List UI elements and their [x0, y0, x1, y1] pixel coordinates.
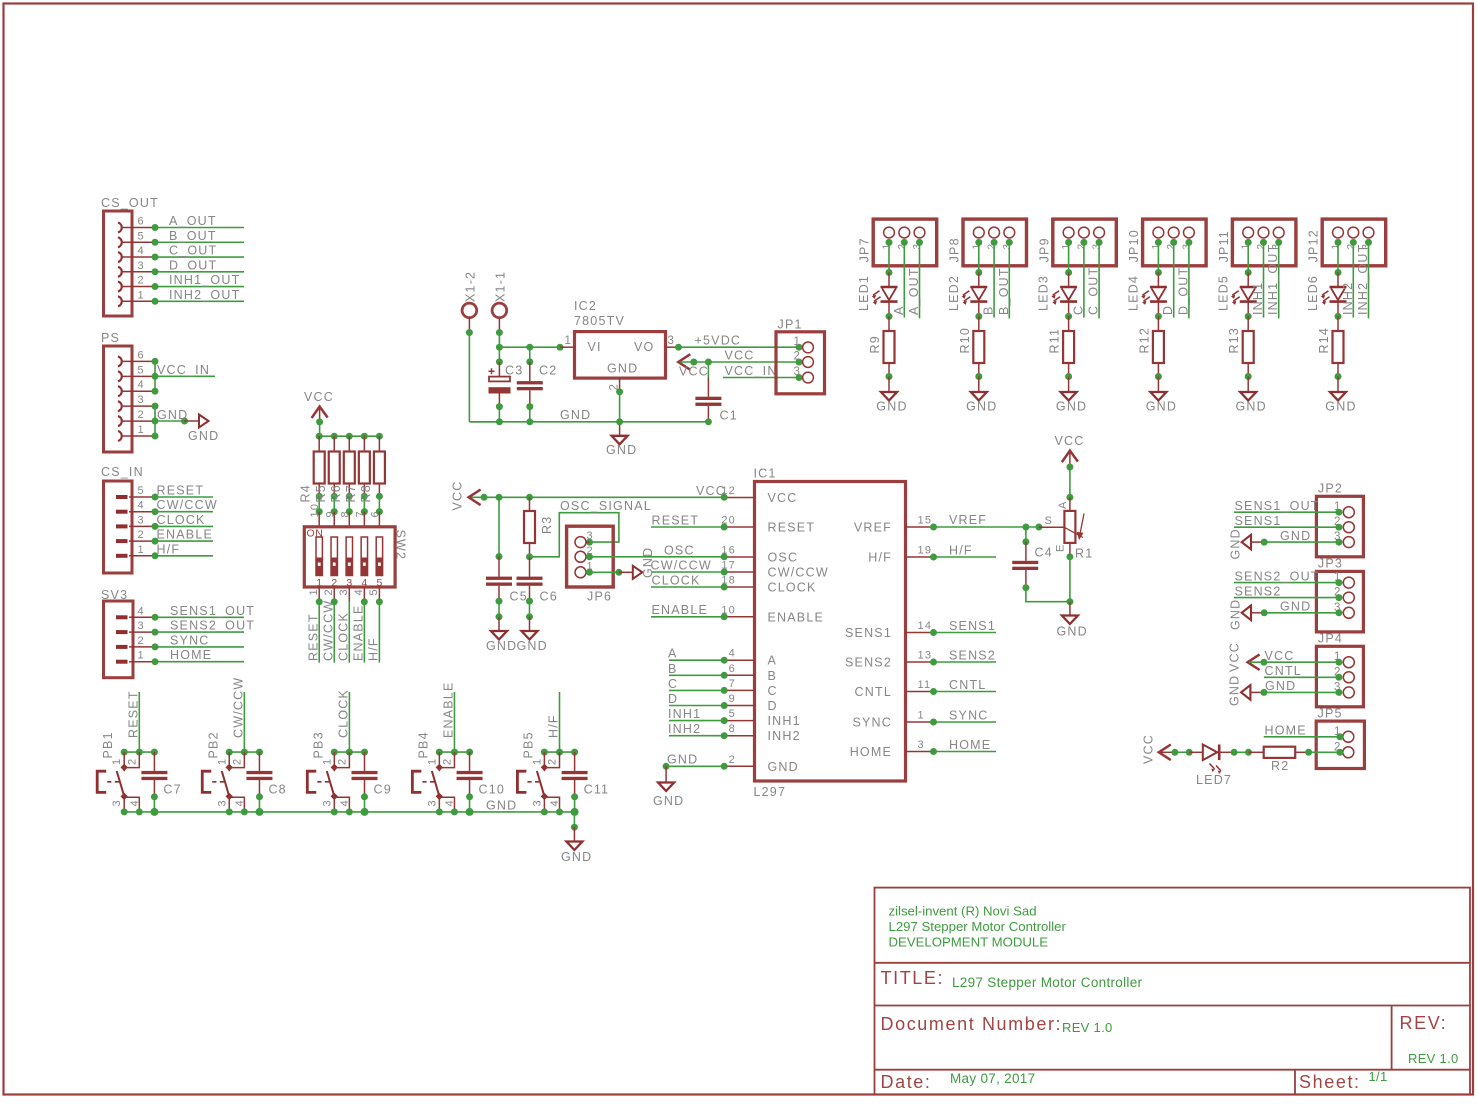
svg-text:A: A — [668, 647, 678, 661]
svg-text:INH2_OUT: INH2_OUT — [169, 288, 240, 302]
wire X1-2 to GND rail — [466, 329, 500, 422]
svg-text:C: C — [1071, 305, 1085, 315]
resistor R4 (network R4) — [299, 436, 325, 517]
pushbutton PB2 — [202, 731, 246, 812]
svg-text:C11: C11 — [584, 783, 610, 797]
svg-text:2: 2 — [138, 275, 145, 287]
svg-text:5: 5 — [729, 708, 736, 720]
svg-text:2: 2 — [441, 758, 453, 765]
svg-text:+5VDC: +5VDC — [695, 334, 742, 348]
wire net A_OUT from JP7 pin 3 — [907, 239, 923, 319]
pushbutton PB4 — [412, 731, 456, 812]
ground symbol GND below R14 — [1325, 392, 1356, 414]
wire net HOME — [930, 738, 996, 755]
svg-text:REV 1.0: REV 1.0 — [1408, 1051, 1459, 1066]
svg-text:GND: GND — [188, 429, 219, 443]
svg-text:GND: GND — [1265, 679, 1296, 693]
svg-text:LED2: LED2 — [947, 275, 961, 311]
svg-text:2: 2 — [138, 529, 145, 541]
svg-text:PB3: PB3 — [311, 731, 325, 758]
ground symbol GND at IC1 — [653, 766, 684, 808]
svg-text:5: 5 — [138, 485, 145, 497]
svg-text:1: 1 — [138, 544, 145, 556]
wire net VCC to JP4 pin 1 — [1249, 649, 1342, 666]
ground symbol GND below R12 — [1146, 392, 1177, 414]
svg-text:CS_OUT: CS_OUT — [101, 196, 159, 210]
svg-text:CW/CCW: CW/CCW — [157, 498, 218, 512]
wire net VCC_IN stub — [155, 363, 215, 377]
op-amp U IC1 L297 stepper controller — [721, 467, 933, 800]
svg-text:SENS2: SENS2 — [949, 649, 996, 663]
wire net SENS2 — [930, 649, 996, 666]
svg-text:3: 3 — [587, 530, 594, 542]
svg-text:ENABLE: ENABLE — [157, 528, 214, 542]
wire net SENS1_OUT — [152, 604, 256, 621]
svg-text:HOME: HOME — [949, 738, 991, 752]
svg-text:Sheet:: Sheet: — [1299, 1072, 1361, 1092]
svg-text:OSC: OSC — [664, 544, 695, 558]
ground symbol GND below R9 — [876, 392, 907, 414]
capacitor C7 — [141, 752, 181, 812]
wire net VI rail — [496, 344, 564, 351]
wire net SENS2 to JP3 pin 2 — [1234, 584, 1342, 601]
resistor R12 — [1137, 327, 1164, 363]
wire top rail of PB4 — [436, 749, 473, 756]
pin 2 of IC2 to GND — [609, 378, 624, 422]
wire net ENABLE to PB4 — [441, 681, 455, 752]
svg-text:JP1: JP1 — [778, 318, 803, 332]
wire R12 to GND — [1155, 363, 1162, 392]
wire LED1 to R9 — [886, 302, 893, 331]
svg-text:RESET: RESET — [157, 484, 205, 498]
svg-text:GND: GND — [606, 443, 637, 457]
svg-text:GND: GND — [486, 639, 517, 653]
svg-text:5: 5 — [368, 588, 380, 595]
svg-text:GND: GND — [607, 362, 638, 376]
svg-text:ENABLE: ENABLE — [352, 604, 366, 661]
svg-text:R4: R4 — [299, 484, 313, 502]
svg-text:3: 3 — [138, 260, 145, 272]
ground symbol GND right of JP6 — [633, 547, 655, 579]
capacitor C3 (polarized) — [489, 347, 524, 422]
svg-text:C10: C10 — [479, 783, 506, 797]
svg-text:4: 4 — [138, 605, 145, 617]
svg-text:HOME: HOME — [170, 648, 212, 662]
svg-text:C: C — [668, 677, 678, 691]
wire JP10 pin 1 to LED4 — [1155, 239, 1162, 287]
wire net D_OUT from JP10 pin 3 — [1176, 239, 1192, 319]
wire net C to IC1 — [668, 677, 728, 694]
svg-text:LED6: LED6 — [1306, 275, 1320, 311]
ground symbol GND at JP4 — [1228, 675, 1251, 706]
wire net H/F below SW2 pin 5 — [367, 587, 383, 663]
svg-text:S: S — [1045, 515, 1054, 527]
svg-text:8: 8 — [729, 723, 736, 735]
connector CS_OUT — [101, 196, 159, 316]
svg-text:2: 2 — [794, 351, 802, 363]
svg-text:6: 6 — [138, 216, 145, 228]
connector PS — [101, 331, 155, 452]
wire net CLOCK below SW2 pin 3 — [337, 587, 351, 663]
wire JP8 pin 1 to LED2 — [975, 239, 982, 287]
svg-text:3: 3 — [668, 335, 676, 347]
svg-text:E: E — [1055, 543, 1067, 552]
svg-text:2: 2 — [547, 758, 559, 765]
wire JP7 pin 1 to LED1 — [886, 239, 893, 287]
wire net HOME to JP5 pin 1 — [1264, 724, 1344, 741]
wire net CNTL to JP4 pin 2 — [1264, 664, 1343, 681]
power symbol VCC arrow at JP1 — [678, 354, 709, 378]
svg-text:VREF: VREF — [949, 513, 987, 527]
wire net RESET to PB1 — [126, 690, 140, 752]
svg-text:C8: C8 — [268, 783, 286, 797]
connector JP5 — [1316, 706, 1364, 768]
svg-text:CNTL: CNTL — [1265, 664, 1302, 678]
svg-text:LED4: LED4 — [1127, 275, 1141, 311]
wire net C from JP9 pin 2 — [1071, 239, 1087, 318]
svg-text:2: 2 — [126, 758, 138, 765]
svg-text:C7: C7 — [163, 783, 181, 797]
svg-text:OSC: OSC — [768, 551, 799, 565]
wire net D to IC1 — [668, 692, 728, 709]
svg-text:1: 1 — [794, 336, 802, 348]
ground symbol GND below R11 — [1056, 392, 1087, 414]
svg-text:B_OUT: B_OUT — [169, 229, 217, 243]
svg-text:R5: R5 — [314, 484, 328, 502]
svg-text:GND: GND — [561, 850, 592, 864]
svg-text:CLOCK: CLOCK — [157, 513, 206, 527]
wire LED6 to R14 — [1335, 302, 1342, 331]
power symbol VCC at JP4 — [1228, 642, 1260, 672]
svg-text:SENS1_OUT: SENS1_OUT — [1235, 499, 1320, 513]
svg-text:GND: GND — [1229, 528, 1243, 559]
svg-text:1: 1 — [531, 758, 543, 765]
text REV cell — [1400, 1013, 1459, 1066]
wire GND drop below C11 — [571, 812, 578, 841]
wire net SENS1_OUT to JP2 pin 1 — [1234, 499, 1342, 516]
wire net SYNC — [930, 709, 996, 726]
svg-text:IC1: IC1 — [754, 467, 777, 481]
svg-text:INH1_OUT: INH1_OUT — [169, 273, 240, 287]
svg-text:2: 2 — [231, 758, 243, 765]
svg-text:1/1: 1/1 — [1369, 1069, 1388, 1084]
svg-text:D: D — [1161, 305, 1175, 315]
svg-text:SYNC: SYNC — [949, 709, 989, 723]
svg-text:GND: GND — [653, 794, 684, 808]
wire net OSC_SIGNAL loop — [559, 499, 652, 557]
svg-text:L297 Stepper Motor Controller: L297 Stepper Motor Controller — [889, 919, 1067, 934]
svg-text:9: 9 — [729, 693, 736, 705]
svg-text:C4: C4 — [1035, 546, 1053, 560]
svg-text:JP4: JP4 — [1318, 632, 1343, 646]
capacitor C4 — [1012, 527, 1070, 601]
wire VCC to LED7 — [1160, 749, 1203, 756]
svg-text:3: 3 — [111, 799, 123, 806]
svg-text:GND: GND — [1229, 599, 1243, 630]
resistor R13 — [1227, 327, 1254, 363]
svg-text:1: 1 — [918, 710, 925, 722]
resistor R9 — [868, 331, 895, 363]
wire net CW/CCW below SW2 pin 2 — [321, 587, 337, 663]
wire JP9 pin 1 to LED3 — [1065, 239, 1072, 287]
svg-text:1: 1 — [138, 650, 145, 662]
wire net A to IC1 — [668, 647, 728, 664]
svg-text:3: 3 — [138, 394, 145, 406]
LED LED5 — [1216, 275, 1256, 311]
wire net INH2_OUT — [152, 288, 245, 305]
svg-text:SYNC: SYNC — [170, 633, 210, 647]
svg-text:GND: GND — [1228, 675, 1242, 706]
svg-text:C5: C5 — [510, 590, 528, 604]
svg-text:4: 4 — [138, 500, 145, 512]
svg-text:A: A — [892, 305, 906, 315]
svg-text:1: 1 — [138, 424, 145, 436]
wire net GND rail under IC2 — [469, 408, 708, 425]
wire net H/F to PB5 — [547, 692, 561, 752]
svg-text:VREF: VREF — [854, 521, 892, 535]
LED LED3 — [1037, 275, 1077, 311]
svg-text:RESET: RESET — [768, 521, 816, 535]
svg-text:JP11: JP11 — [1217, 230, 1231, 262]
svg-text:11: 11 — [918, 679, 932, 691]
connector CS_IN — [101, 465, 155, 573]
wire net CLOCK to PB3 — [336, 689, 350, 752]
svg-text:X1-2: X1-2 — [463, 271, 477, 302]
svg-text:3: 3 — [918, 739, 925, 751]
wire R2 to JP5 pin 2 — [1295, 749, 1343, 756]
svg-text:D_OUT: D_OUT — [1176, 267, 1190, 315]
svg-text:GND: GND — [876, 400, 907, 414]
svg-text:Document Number:: Document Number: — [881, 1014, 1063, 1034]
wire net +5VDC — [675, 334, 803, 351]
wire net B from JP8 pin 2 — [982, 239, 998, 318]
power symbol VCC above R4 — [304, 390, 334, 421]
wire net GND bottom rail of buttons — [121, 799, 579, 816]
svg-text:C2: C2 — [539, 364, 557, 378]
svg-text:A_OUT: A_OUT — [169, 214, 217, 228]
connector JP11 — [1217, 219, 1296, 266]
svg-text:CW/CCW: CW/CCW — [321, 600, 335, 661]
svg-text:VCC: VCC — [304, 390, 334, 404]
svg-text:C3: C3 — [505, 364, 523, 378]
wire net INH1 from JP11 pin 2 — [1251, 239, 1267, 318]
connector JP1 — [776, 318, 825, 394]
svg-text:SENS2_OUT: SENS2_OUT — [170, 619, 255, 633]
svg-text:R1: R1 — [1075, 547, 1093, 561]
svg-text:GND: GND — [560, 408, 591, 422]
wire R13 to GND — [1245, 363, 1252, 392]
wire net D_OUT — [152, 258, 245, 275]
svg-text:CLOCK: CLOCK — [768, 581, 817, 595]
svg-text:R13: R13 — [1227, 327, 1241, 354]
svg-text:4: 4 — [353, 588, 365, 595]
svg-text:LED3: LED3 — [1037, 275, 1051, 311]
svg-text:VCC: VCC — [451, 481, 465, 511]
connector SV3 — [101, 588, 155, 678]
ground symbol GND at JP2 — [1229, 528, 1252, 559]
capacitor C1 — [695, 362, 737, 425]
capacitor C11 — [562, 752, 610, 812]
wire LED4 to R12 — [1155, 302, 1162, 331]
ground symbol GND below C6 — [517, 631, 548, 653]
svg-text:CW/CCW: CW/CCW — [231, 677, 245, 738]
svg-text:4: 4 — [138, 379, 145, 391]
svg-text:C_OUT: C_OUT — [1087, 267, 1101, 315]
svg-text:R6: R6 — [329, 484, 343, 502]
svg-text:DEVELOPMENT MODULE: DEVELOPMENT MODULE — [889, 935, 1049, 950]
svg-text:GND: GND — [768, 760, 799, 774]
wire net SENS1 to JP2 pin 2 — [1234, 514, 1342, 531]
wire net B_OUT — [152, 229, 245, 246]
svg-text:H/F: H/F — [949, 544, 973, 558]
svg-text:REV:: REV: — [1400, 1013, 1448, 1033]
ground symbol GND below R13 — [1236, 392, 1267, 414]
svg-text:A: A — [768, 654, 778, 668]
svg-text:R7: R7 — [344, 484, 358, 502]
pushbutton PB1 — [97, 731, 141, 812]
svg-text:JP12: JP12 — [1307, 229, 1321, 262]
wire net CNTL — [930, 678, 996, 695]
svg-text:3: 3 — [426, 799, 438, 806]
svg-text:19: 19 — [918, 545, 933, 557]
wire net VCC_IN bus on PS pins 6-4 — [152, 358, 159, 395]
wire net VREF — [930, 513, 1042, 531]
connector JP7 — [858, 219, 937, 266]
wire net INH2 to IC1 — [668, 722, 728, 739]
svg-text:TITLE:: TITLE: — [881, 968, 945, 988]
resistor R8 (network R4) — [359, 436, 385, 517]
svg-text:A_OUT: A_OUT — [907, 267, 921, 315]
ground symbol GND below R10 — [966, 392, 997, 414]
svg-text:VCC_IN: VCC_IN — [157, 363, 210, 377]
svg-text:1: 1 — [138, 289, 145, 301]
svg-text:INH1: INH1 — [768, 714, 801, 728]
svg-text:INH2_OUT: INH2_OUT — [1356, 244, 1370, 315]
svg-text:JP6: JP6 — [587, 590, 612, 604]
svg-text:15: 15 — [918, 515, 933, 527]
IC2 7805TV voltage regulator — [574, 299, 666, 378]
resistor R11 — [1048, 328, 1075, 363]
text document number row — [881, 1014, 1113, 1035]
svg-text:REV 1.0: REV 1.0 — [1062, 1020, 1113, 1035]
capacitor C8 — [246, 752, 286, 812]
svg-text:JP9: JP9 — [1037, 237, 1051, 262]
wire X1-1 to VI rail — [496, 329, 503, 347]
svg-text:ENABLE: ENABLE — [652, 603, 709, 617]
svg-text:3: 3 — [338, 588, 350, 595]
svg-text:H/F: H/F — [868, 551, 892, 565]
svg-text:VCC: VCC — [725, 349, 755, 363]
svg-text:VI: VI — [588, 340, 602, 354]
svg-text:L297 Stepper Motor Controller: L297 Stepper Motor Controller — [952, 975, 1143, 990]
wire net D from JP10 pin 2 — [1161, 239, 1177, 318]
svg-text:R12: R12 — [1137, 327, 1151, 354]
svg-text:5: 5 — [138, 230, 145, 242]
LED LED1 — [857, 275, 897, 311]
LED LED7 — [1196, 745, 1232, 788]
svg-text:RESET: RESET — [652, 514, 700, 528]
svg-text:GND: GND — [486, 799, 517, 813]
svg-text:HOME: HOME — [850, 745, 892, 759]
svg-text:JP2: JP2 — [1318, 482, 1343, 496]
text company info — [889, 904, 1067, 950]
LED LED4 — [1127, 275, 1167, 311]
svg-text:6: 6 — [138, 349, 145, 361]
wire net VREF to R1 wiper — [1039, 526, 1065, 528]
svg-text:PB4: PB4 — [416, 731, 430, 758]
connector JP2 — [1316, 482, 1363, 557]
wire top rail of PB5 — [541, 749, 578, 756]
svg-text:B: B — [768, 669, 778, 683]
svg-text:zilsel-invent (R) Novi Sad: zilsel-invent (R) Novi Sad — [889, 904, 1037, 919]
svg-text:1: 1 — [321, 758, 333, 765]
svg-text:VCC: VCC — [1055, 434, 1085, 448]
svg-text:3: 3 — [216, 799, 228, 806]
svg-text:VCC: VCC — [1142, 734, 1156, 764]
svg-text:13: 13 — [918, 650, 933, 662]
wire net VCC_IN to JP1 pin 3 — [723, 364, 803, 381]
svg-text:1: 1 — [216, 758, 228, 765]
svg-text:C_OUT: C_OUT — [169, 244, 217, 258]
svg-text:GND: GND — [1280, 600, 1311, 614]
svg-text:PB2: PB2 — [206, 731, 220, 758]
wire R4 pin 7 to SW2 — [361, 493, 368, 527]
svg-text:CNTL: CNTL — [949, 678, 986, 692]
wire net RESET to IC1 pin 20 — [651, 514, 728, 531]
svg-text:RESET: RESET — [126, 690, 140, 738]
wire LED3 to R11 — [1065, 302, 1072, 331]
wire R1 bottom to GND — [1066, 557, 1073, 615]
pin 3 of IC2 — [666, 335, 679, 347]
wire net SENS1 — [930, 619, 996, 636]
svg-text:3: 3 — [138, 620, 145, 632]
connector JP8 — [948, 219, 1027, 266]
svg-text:LED5: LED5 — [1216, 275, 1230, 311]
svg-text:5: 5 — [138, 364, 145, 376]
svg-text:JP10: JP10 — [1127, 229, 1141, 262]
svg-text:GND: GND — [1280, 529, 1311, 543]
wire net H/F — [930, 544, 996, 561]
svg-text:HOME: HOME — [1265, 724, 1307, 738]
wire net VCC to JP1 pin 2 — [680, 349, 803, 366]
wire R10 to GND — [975, 363, 982, 392]
trimmer R1 — [1045, 464, 1094, 561]
ground symbol GND below R1 — [1057, 616, 1088, 639]
svg-text:VO: VO — [634, 340, 654, 354]
wire R3 bottom to OSC net — [530, 556, 561, 558]
resistor R7 (network R4) — [344, 436, 370, 517]
svg-text:7: 7 — [729, 678, 736, 690]
wire R11 to GND — [1065, 363, 1072, 392]
ground symbol GND at JP3 — [1229, 599, 1252, 630]
svg-text:R10: R10 — [958, 327, 972, 354]
capacitor C2 — [517, 347, 558, 422]
svg-text:R9: R9 — [868, 335, 882, 353]
svg-text:LED7: LED7 — [1196, 773, 1232, 787]
wire net VCC to IC1 pin 12 — [470, 484, 728, 501]
wire R4 pin 6 to SW2 — [376, 493, 383, 527]
svg-text:H/F: H/F — [367, 637, 381, 661]
svg-text:GND: GND — [1146, 400, 1177, 414]
svg-text:SENS2_OUT: SENS2_OUT — [1235, 569, 1320, 583]
svg-text:ENABLE: ENABLE — [441, 681, 455, 738]
connector JP6 — [567, 526, 614, 603]
wire net GND to JP2 pin 3 — [1251, 529, 1342, 546]
svg-text:1: 1 — [308, 588, 320, 595]
svg-text:7805TV: 7805TV — [574, 314, 625, 328]
wire net C_OUT — [152, 244, 245, 261]
wire LED5 to R13 — [1245, 302, 1252, 331]
